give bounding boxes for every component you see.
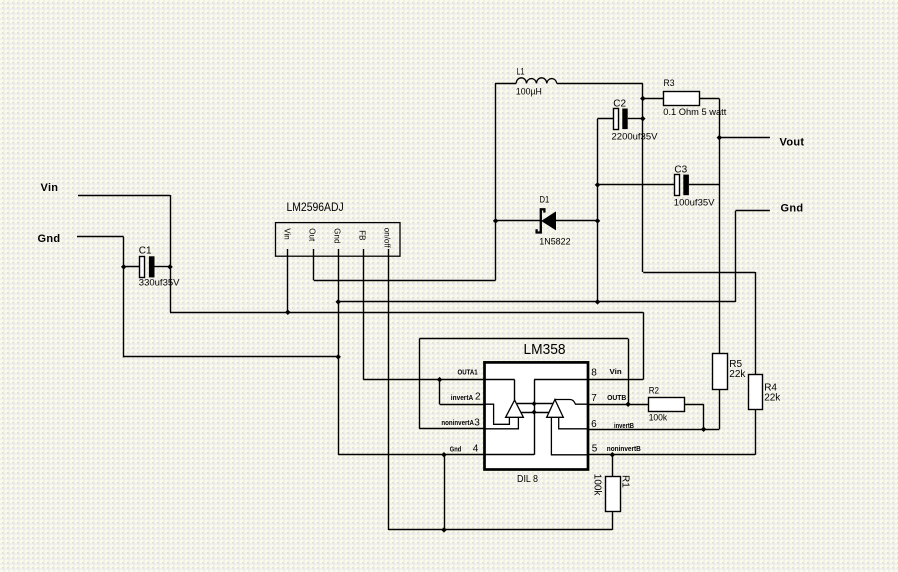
junction switch node at R3 left bbox=[640, 96, 646, 102]
wire invertB pin6 row bbox=[588, 429, 719, 431]
svg-text:C1: C1 bbox=[139, 246, 152, 257]
svg-text:Vin: Vin bbox=[41, 182, 59, 194]
svg-text:Out: Out bbox=[308, 228, 317, 242]
wire LM2596 pin FB down bbox=[363, 249, 365, 380]
junction Gnd pin4 node bbox=[441, 452, 447, 458]
wire LM2596 pin on-off down to bottom rail bbox=[388, 249, 390, 530]
junction OUTA to FB node bbox=[437, 377, 443, 383]
op-amp U2 LM358 body bbox=[485, 362, 589, 469]
wire L1 left lead bbox=[495, 83, 516, 85]
wire C1 right lead bbox=[154, 266, 170, 268]
wire output node vertical R3 to R5 bbox=[719, 99, 721, 354]
svg-text:Gnd: Gnd bbox=[333, 228, 342, 243]
wire switch node over to R4 bbox=[643, 272, 755, 274]
wire Vin rail bbox=[170, 312, 643, 314]
wire R3 right lead bbox=[699, 98, 719, 100]
svg-text:FB: FB bbox=[358, 230, 367, 240]
svg-text:330uf35V: 330uf35V bbox=[139, 277, 180, 288]
op-amp A triangle bbox=[506, 400, 524, 417]
junction C3 line tee on C2 branch bbox=[595, 182, 601, 188]
junction gnd input rail at LM2596 Gnd pin bbox=[335, 354, 341, 360]
svg-text:on/off: on/off bbox=[383, 228, 392, 249]
wire Vout stub bbox=[719, 137, 770, 139]
wire invertA row bbox=[440, 404, 485, 406]
wire C1 left lead bbox=[124, 266, 141, 268]
capacitor C2 negative plate bbox=[622, 109, 627, 130]
svg-text:R1: R1 bbox=[619, 475, 630, 488]
svg-text:DIL 8: DIL 8 bbox=[517, 474, 538, 485]
junction internal lower rail bbox=[532, 410, 537, 415]
svg-text:7: 7 bbox=[591, 393, 597, 404]
svg-text:invertA: invertA bbox=[451, 395, 473, 402]
svg-text:2200uf35V: 2200uf35V bbox=[612, 132, 659, 143]
capacitor C3 negative plate bbox=[683, 175, 689, 196]
wire internal noninvertB path bbox=[551, 417, 587, 455]
junction LM2596 Vin pin on Vin rail bbox=[285, 309, 291, 315]
wire internal lower rail between op-amps bbox=[521, 412, 550, 414]
wire L1 right lead bbox=[557, 83, 643, 85]
svg-text:L1: L1 bbox=[517, 67, 525, 78]
wire gnd input rail to regulator Gnd pin bbox=[124, 356, 339, 358]
wire internal OUTB path bbox=[555, 400, 587, 405]
junction OUTB loop node bbox=[625, 401, 631, 407]
wire switch node horizontal Out to diode top bbox=[314, 280, 496, 282]
wire C3 left lead bbox=[598, 184, 675, 186]
svg-text:8: 8 bbox=[591, 367, 597, 378]
junction bottom rail at x444 bbox=[441, 527, 447, 533]
svg-text:1N5822: 1N5822 bbox=[539, 236, 570, 247]
svg-text:LM358: LM358 bbox=[524, 341, 566, 358]
capacitor C3 positive plate bbox=[675, 175, 680, 196]
junction C1 left node bbox=[121, 264, 127, 270]
diode D1 triangle bbox=[542, 212, 556, 230]
wire gnd link line to output Gnd terminal bbox=[338, 301, 735, 303]
wire noninvertB pin5 row bbox=[588, 454, 755, 456]
svg-text:3: 3 bbox=[474, 417, 480, 428]
wire Vin terminal to vertical bbox=[78, 195, 170, 197]
junction C2 branch on gnd link line bbox=[595, 299, 601, 305]
svg-text:6: 6 bbox=[591, 419, 597, 430]
wire Gnd input vertical down to C1 and gnd rail bbox=[123, 237, 125, 358]
junction C1 right node bbox=[167, 264, 173, 270]
op-amp U1 LM2596ADJ body bbox=[276, 223, 401, 257]
junction feedback divider node bbox=[701, 427, 707, 433]
svg-text:Gnd: Gnd bbox=[38, 233, 61, 245]
wire R5 bottom lead bbox=[719, 390, 721, 429]
svg-text:Gnd: Gnd bbox=[450, 446, 462, 453]
capacitor C1 negative plate bbox=[149, 256, 155, 277]
wire internal pin4 gnd row bbox=[485, 454, 534, 456]
wire noninvertA loop left vertical bbox=[419, 339, 421, 429]
svg-text:R2: R2 bbox=[649, 385, 659, 396]
wire internal invertA path bbox=[485, 404, 509, 424]
resistor R2 bbox=[649, 398, 685, 412]
junction Vout tap bbox=[717, 135, 723, 141]
wire output Gnd vertical bbox=[735, 211, 737, 302]
svg-text:100uf35V: 100uf35V bbox=[674, 197, 715, 208]
wire noninvertA loop right vertical to OUTB bbox=[628, 339, 630, 405]
wire C2 right lead bbox=[628, 118, 643, 120]
wire R3 left lead bbox=[643, 98, 664, 100]
wire bottom gnd rail bbox=[388, 529, 612, 531]
resistor R4 bbox=[749, 375, 763, 410]
svg-text:5: 5 bbox=[592, 443, 598, 454]
svg-text:R3: R3 bbox=[664, 78, 675, 89]
resistor R5 bbox=[713, 354, 728, 390]
junction gnd link line at LM2596 Gnd pin bbox=[335, 299, 341, 305]
capacitor C2 positive plate bbox=[614, 109, 619, 130]
wire internal OUTA from apex bbox=[514, 380, 516, 401]
svg-text:100k: 100k bbox=[591, 474, 602, 497]
inductor L1 coil bbox=[516, 78, 557, 84]
wire L1 to R3 node vertical bbox=[642, 83, 644, 272]
wire internal supply vertical bbox=[534, 380, 536, 455]
junction internal upper rail bbox=[532, 401, 537, 406]
wire Gnd pin4 down to bottom rail bbox=[444, 455, 446, 530]
svg-text:0.1 Ohm 5 watt: 0.1 Ohm 5 watt bbox=[663, 107, 726, 118]
svg-text:2: 2 bbox=[475, 392, 481, 403]
svg-text:invertB: invertB bbox=[614, 423, 634, 430]
wire output Gnd stub bbox=[736, 210, 770, 212]
junction noninvertB to R1 bbox=[610, 452, 616, 458]
junction D1 cathode on C2 branch bbox=[595, 218, 601, 224]
wire Gnd terminal horizontal bbox=[77, 236, 124, 238]
wire C3 right lead bbox=[689, 184, 719, 186]
wire noninvertA row bbox=[419, 428, 484, 430]
wire R4 top lead bbox=[755, 272, 757, 374]
svg-text:Vin: Vin bbox=[283, 228, 292, 239]
capacitor C1 positive plate bbox=[140, 257, 145, 278]
wire internal OUTA row bbox=[485, 379, 515, 381]
wire R2 jog down to feedback node bbox=[703, 404, 705, 429]
wire Gnd pin4 row bbox=[338, 454, 484, 456]
wire Vin vertical down through C1 right to Vin rail bbox=[170, 195, 172, 312]
svg-text:100µH: 100µH bbox=[516, 87, 542, 98]
wire pin8 row bbox=[588, 379, 643, 381]
wire LM2596 pin Vin down to Vin rail bbox=[287, 249, 289, 312]
wire noninvertA loop top bbox=[419, 338, 628, 340]
wire internal invertB path bbox=[559, 417, 587, 429]
wire R2 right lead bbox=[684, 404, 703, 406]
wire C2 left lead bbox=[598, 118, 614, 120]
svg-text:D1: D1 bbox=[540, 194, 550, 205]
wire LM358 Vin pin8 riser bbox=[643, 312, 645, 379]
svg-text:Gnd: Gnd bbox=[781, 203, 804, 215]
svg-text:Vout: Vout bbox=[780, 137, 805, 149]
wire C2 left vertical down to gnd link bbox=[597, 119, 599, 302]
wire OUTB pin7 row to R2 bbox=[588, 404, 648, 406]
wire R1 bottom lead bbox=[612, 511, 614, 530]
svg-text:4: 4 bbox=[473, 443, 479, 454]
op-amp B triangle bbox=[547, 400, 564, 418]
wire L1 left vertical from coil down to diode bbox=[495, 83, 497, 280]
svg-text:22k: 22k bbox=[764, 393, 781, 404]
resistor R1 bbox=[606, 477, 621, 512]
wire R4 bottom lead bbox=[755, 410, 757, 455]
svg-text:OUTB: OUTB bbox=[607, 395, 626, 402]
diode D1 schottky cathode bar bbox=[537, 209, 545, 232]
svg-text:noninvertB: noninvertB bbox=[607, 446, 641, 453]
wire OUTA feedback to invertA vertical bbox=[439, 380, 441, 405]
wire LM2596 pin Gnd down to gnd bbox=[338, 249, 340, 455]
resistor R3 bbox=[664, 92, 700, 106]
svg-text:100k: 100k bbox=[649, 413, 668, 424]
junction D1 anode on switch-node vertical bbox=[493, 218, 499, 224]
svg-text:OUTA1: OUTA1 bbox=[458, 370, 478, 377]
wire LM2596 pin Out down bbox=[313, 249, 315, 280]
wire D1 anode lead bbox=[496, 220, 541, 222]
svg-text:22k: 22k bbox=[729, 369, 746, 380]
wire FB to op-amp OUTA bbox=[363, 379, 484, 381]
wire internal pin8 supply row bbox=[534, 379, 587, 381]
svg-text:LM2596ADJ: LM2596ADJ bbox=[287, 200, 344, 214]
svg-text:Vin: Vin bbox=[610, 369, 622, 376]
wire D1 cathode lead bbox=[556, 220, 598, 222]
junction C2 right on switch node bbox=[640, 116, 646, 122]
svg-text:noninvertA: noninvertA bbox=[441, 420, 474, 427]
wire R1 top lead bbox=[612, 455, 614, 476]
wire internal noninvertA path bbox=[485, 417, 518, 429]
wire internal upper rail between op-amps bbox=[517, 403, 553, 405]
